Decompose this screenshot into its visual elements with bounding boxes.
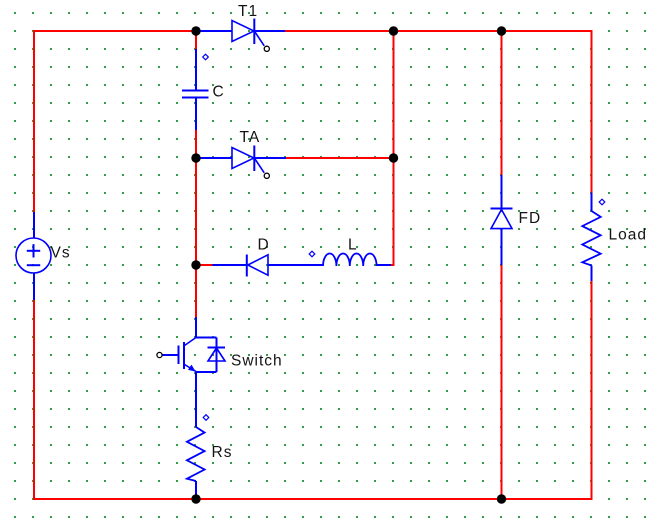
source Vs <box>16 212 51 300</box>
wire L output red stub <box>391 264 395 266</box>
junction node D anode <box>191 260 200 269</box>
emitter arrow of switch <box>188 365 196 372</box>
junction node TA return <box>389 153 398 162</box>
svg-text:Rs: Rs <box>212 444 233 461</box>
svg-text:FD: FD <box>519 210 542 227</box>
wire bottom <box>33 498 593 500</box>
wire mid column above TA junction <box>195 130 197 158</box>
thyristor TA <box>196 146 286 173</box>
switch IGBT <box>162 317 225 372</box>
svg-text:T1: T1 <box>238 3 258 20</box>
inductor L <box>323 253 391 266</box>
resistor Rs <box>187 372 205 499</box>
junction node bottom Rs <box>191 494 200 503</box>
svg-text:Load: Load <box>609 227 647 244</box>
wire mid column TA to D junction <box>195 158 197 265</box>
diode FD <box>491 175 513 265</box>
gate terminal circle of switch <box>157 352 162 357</box>
svg-text:Switch: Switch <box>231 353 283 370</box>
wire Load column upper <box>591 30 593 193</box>
junction node bottom FD <box>497 494 506 503</box>
marker diamond of C <box>203 54 209 60</box>
marker diamond of L <box>309 251 315 257</box>
wire top red left segment <box>33 30 196 32</box>
svg-text:C: C <box>213 84 225 101</box>
wire top red right segment <box>285 30 593 32</box>
marker diamond of Load <box>599 199 605 205</box>
wire Load column lower <box>591 281 593 500</box>
gate terminal circle of TA <box>264 173 269 178</box>
wire mid column below T1 junction <box>195 31 197 49</box>
diode D <box>213 255 324 277</box>
wire return column x394 <box>393 31 395 266</box>
junction node top FD <box>497 26 506 35</box>
gate terminal circle of T1 <box>264 46 269 51</box>
thyristor T1 <box>196 19 285 46</box>
wire left column upper <box>33 30 35 212</box>
svg-text:Vs: Vs <box>51 245 71 262</box>
junction node at T1 anode <box>191 26 200 35</box>
capacitor C <box>182 49 209 130</box>
resistor Load <box>582 193 600 282</box>
wire TA row red <box>286 157 395 159</box>
svg-text:D: D <box>258 237 270 254</box>
junction node top return <box>389 26 398 35</box>
marker diamond of Rs <box>203 415 209 421</box>
junction node TA anode <box>191 153 200 162</box>
wire D row red stub <box>196 264 213 266</box>
wire FD column upper <box>501 31 503 175</box>
wire mid column D junction to switch <box>195 265 197 317</box>
svg-text:TA: TA <box>240 129 261 146</box>
wire left column lower <box>33 300 35 500</box>
svg-text:L: L <box>348 237 358 254</box>
wire FD column lower <box>501 265 503 499</box>
